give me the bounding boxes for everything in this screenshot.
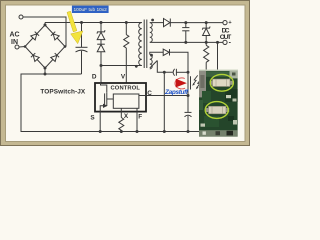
bypass capacitor C4 (185, 111, 192, 113)
svg-text:C: C (147, 90, 152, 97)
wire clamp node to primary bottom (101, 65, 142, 67)
transformer core (143, 20, 145, 69)
optocoupler fragment (190, 76, 192, 89)
highlighted note 100uF (72, 6, 109, 14)
CONTROL inner box (113, 94, 139, 108)
wire AC top to bridge right vertex (23, 17, 66, 47)
svg-text:CONTROL: CONTROL (111, 86, 141, 92)
output return rail (150, 41, 223, 43)
bias return vertical (163, 72, 165, 131)
photo component U3 (206, 108, 209, 112)
bridge diode D4 (bottom-right edge) (51, 53, 59, 61)
phasing dot primary (135, 65, 138, 68)
transformer secondary winding (150, 23, 152, 43)
series capacitor C3 (173, 69, 174, 76)
phasing dot secondary (151, 19, 154, 22)
return wire left loop (21, 74, 201, 132)
photo component U2 (210, 81, 213, 85)
DC OUT terminal + (223, 21, 227, 25)
yellow arrow annotation (67, 11, 83, 44)
transformer bias winding (150, 55, 152, 69)
svg-text:Zapstuff: Zapstuff (164, 89, 189, 96)
clamp zener VR1 (100, 23, 102, 32)
photo bottom strip (199, 130, 238, 136)
DC OUT terminal - (223, 40, 227, 44)
frame background (0, 0, 250, 146)
DC+ rail (44, 23, 46, 26)
X pin resistor R3 (120, 112, 122, 118)
svg-text:S: S (90, 114, 95, 121)
wire D pin (100, 66, 102, 83)
bias diode D7 (163, 49, 169, 55)
photo circle 2 (205, 102, 228, 119)
secondary output wire (150, 22, 164, 24)
output zener VR2 (205, 23, 207, 28)
bridge diode D3 (bottom-left edge) (31, 53, 39, 61)
C pin wire (147, 95, 189, 97)
photo circle 1 (210, 74, 233, 91)
AC terminal bottom (15, 45, 19, 49)
phasing dot bias (150, 54, 153, 57)
svg-text:F: F (138, 113, 142, 120)
bridge diode D2 (top-right edge) (51, 32, 59, 40)
svg-text:AC: AC (9, 32, 19, 39)
ZapStuff logo (164, 78, 189, 96)
svg-text:V: V (121, 73, 126, 80)
output filter capacitor C2 (185, 23, 187, 28)
svg-text:TOPSwitch-JX: TOPSwitch-JX (40, 88, 86, 95)
wire DC minus branch (217, 42, 219, 69)
svg-text:IN: IN (11, 39, 18, 46)
bias wire to diode (150, 52, 163, 54)
content area (6, 5, 246, 142)
S pin wire (99, 112, 101, 132)
bridge diode D1 (left-top edge) (31, 32, 39, 40)
MOSFET Q1 (101, 83, 107, 93)
bias winding return diagonal (150, 61, 158, 69)
bridge rectifier frame (25, 25, 65, 68)
line sense resistor R1 (125, 23, 127, 35)
clamp diode D5 (97, 43, 105, 45)
feedback resistor R2 (205, 42, 207, 45)
output diode D6 (164, 19, 171, 27)
TOPSwitch block outline (95, 83, 146, 112)
svg-text:D: D (92, 73, 97, 80)
wire AC bottom to bridge left vertex (19, 46, 25, 49)
bulk capacitor C1 (81, 23, 83, 48)
PCB photo inset (199, 70, 238, 137)
F pin wire (136, 112, 138, 132)
return wire bridge bottom (44, 68, 46, 74)
transformer T1 primary winding (139, 23, 142, 66)
svg-text:X: X (124, 113, 129, 120)
svg-text:100uF tub 10x2: 100uF tub 10x2 (74, 7, 108, 13)
AC terminal top (19, 15, 23, 19)
